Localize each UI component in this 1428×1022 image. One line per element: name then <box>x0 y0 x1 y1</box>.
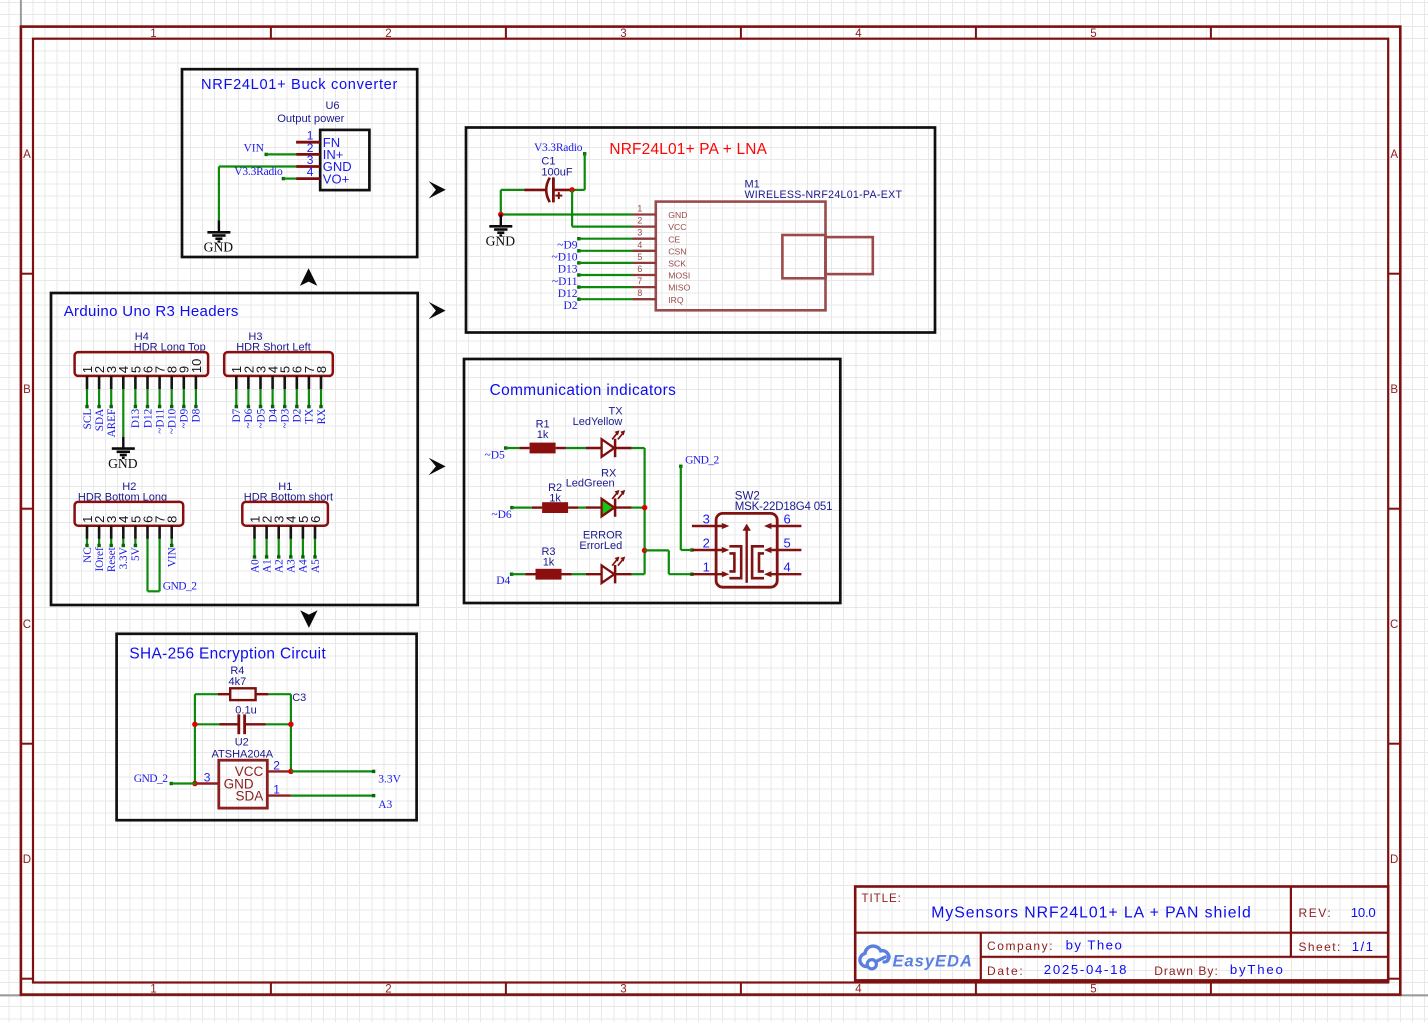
svg-text:D: D <box>1390 854 1398 866</box>
svg-text:TX: TX <box>304 409 316 424</box>
H2 pin 5 <box>128 516 143 539</box>
H2 pin 1 <box>80 516 95 539</box>
svg-text:U6: U6 <box>325 100 339 112</box>
resistor R1 <box>519 418 566 453</box>
capacitor C3 <box>195 714 291 734</box>
H3 pin 8 <box>314 366 329 389</box>
wire GND_2 to SW2 pin 2 <box>679 465 692 550</box>
svg-text:Reset: Reset <box>106 546 118 572</box>
svg-text:A0: A0 <box>249 559 261 573</box>
junction C3 left <box>192 722 198 728</box>
svg-text:GND_2: GND_2 <box>134 773 168 785</box>
ground GND (buck) <box>204 221 234 255</box>
svg-text:D2: D2 <box>292 409 304 423</box>
svg-text:C3: C3 <box>292 692 306 704</box>
M1 pin 3 (CE) <box>633 228 681 245</box>
svg-text:GND_2: GND_2 <box>685 454 719 466</box>
svg-text:5: 5 <box>1090 984 1096 996</box>
IC U2 labels <box>212 737 274 761</box>
H2 pin 4 <box>116 516 131 539</box>
svg-text:2025-04-18: 2025-04-18 <box>1044 962 1128 977</box>
svg-text:2: 2 <box>637 216 642 226</box>
svg-text:D13: D13 <box>558 264 578 276</box>
svg-text:MySensors NRF24L01+ LA + PAN s: MySensors NRF24L01+ LA + PAN shield <box>931 905 1251 922</box>
svg-text:~D9: ~D9 <box>557 240 578 252</box>
U2 pin 3 (GND) <box>196 771 254 792</box>
wire C1 left to ground junction <box>501 190 524 215</box>
svg-text:D12: D12 <box>558 288 578 300</box>
svg-text:1/1: 1/1 <box>1352 939 1375 954</box>
svg-text:D4: D4 <box>496 575 510 587</box>
svg-text:8: 8 <box>637 288 642 298</box>
junction U2 GND <box>192 781 198 787</box>
wire R4 left <box>195 693 218 695</box>
IC U2 ATSHA204A body <box>219 760 267 808</box>
svg-text:U2: U2 <box>235 737 249 749</box>
H4 pin 5 <box>128 366 143 389</box>
svg-text:4: 4 <box>784 560 791 575</box>
svg-text:TITLE:: TITLE: <box>862 893 902 905</box>
section box: Communication indicators <box>464 359 840 603</box>
svg-text:SCK: SCK <box>668 259 686 269</box>
svg-text:VIN: VIN <box>167 547 179 567</box>
svg-text:~D11: ~D11 <box>552 276 578 288</box>
svg-text:6: 6 <box>637 264 642 274</box>
svg-text:NC: NC <box>82 547 94 563</box>
svg-text:MISO: MISO <box>668 283 690 293</box>
svg-text:1k: 1k <box>543 556 555 568</box>
svg-text:A3: A3 <box>378 799 392 811</box>
svg-text:GND: GND <box>486 234 516 249</box>
wire LED RX to bus <box>632 507 645 509</box>
wire SDA to A3 <box>291 794 374 796</box>
flow arrow right (headers to indicators) <box>429 458 446 475</box>
svg-text:Date:: Date: <box>987 964 1024 978</box>
svg-text:SCL: SCL <box>82 409 94 430</box>
wire H1 pin 6 (A5) <box>313 539 316 559</box>
svg-text:VO+: VO+ <box>323 171 349 186</box>
wire LED TX to bus <box>632 447 645 449</box>
wire net D12 to M1 pin 7 <box>577 285 632 288</box>
svg-text:D12: D12 <box>142 409 154 428</box>
svg-text:Drawn By:: Drawn By: <box>1154 964 1219 978</box>
wire V3.3Radio to U6 pin 4 <box>282 177 296 180</box>
wire H3 pin 1 (D7) <box>235 389 238 408</box>
svg-text:~D11: ~D11 <box>154 409 166 434</box>
svg-text:A: A <box>1390 149 1398 161</box>
svg-text:LedGreen: LedGreen <box>566 478 615 490</box>
svg-text:5: 5 <box>637 252 642 262</box>
H1 pin 5 <box>296 516 311 539</box>
svg-text:Company:: Company: <box>987 939 1054 953</box>
H1 pin 1 <box>247 516 262 539</box>
module M1 WIRELESS-NRF24L01-PA-EXT body <box>656 202 826 311</box>
flow arrow right (buck to PA) <box>429 181 446 198</box>
wire end nubs at SW2 pins <box>690 548 693 576</box>
U6 pin 2 (IN+) <box>296 141 343 162</box>
U2 pin 1 (SDA) <box>236 783 291 804</box>
svg-text:WIRELESS-NRF24L01-PA-EXT: WIRELESS-NRF24L01-PA-EXT <box>745 189 903 201</box>
header H1 (HDR Bottom short) <box>242 481 333 539</box>
svg-text:10.0: 10.0 <box>1351 905 1376 920</box>
svg-text:2: 2 <box>273 758 280 772</box>
svg-text:GND: GND <box>108 456 138 471</box>
junction C3 right <box>288 722 294 728</box>
wire H4 pin 5 (D13) <box>134 389 137 408</box>
junction at ground node <box>498 212 504 218</box>
wire H3 pin 8 (RX) <box>319 389 322 408</box>
svg-text:C: C <box>23 619 31 631</box>
svg-text:IRQ: IRQ <box>668 295 684 305</box>
svg-text:EasyEDA: EasyEDA <box>893 952 973 970</box>
svg-text:4: 4 <box>855 28 862 40</box>
wire H1 pin 1 (A0) <box>253 539 256 559</box>
wire H2 pins 6-7 to GND_2 <box>148 539 160 591</box>
svg-text:6: 6 <box>308 516 323 523</box>
switch SW2 labels <box>735 490 833 513</box>
H1 pin 4 <box>284 516 299 539</box>
svg-text:by Theo: by Theo <box>1066 937 1124 952</box>
svg-text:2: 2 <box>385 28 391 40</box>
svg-text:1: 1 <box>150 28 156 40</box>
svg-text:5: 5 <box>1090 28 1096 40</box>
header H3 (HDR Short Left) <box>224 331 333 389</box>
svg-text:Communication indicators: Communication indicators <box>490 382 677 399</box>
svg-text:A1: A1 <box>261 559 273 573</box>
svg-text:7: 7 <box>637 276 642 286</box>
svg-text:D8: D8 <box>191 408 203 422</box>
H3 pin 1 <box>229 366 244 389</box>
H2 pin 8 <box>165 516 180 539</box>
wire bus to SW2 pin 1 <box>645 550 692 574</box>
junction at C1 right <box>569 187 575 193</box>
section box: NRF24L01+ PA + LNA <box>466 128 935 333</box>
flow arrow right (headers to PA) <box>429 302 446 319</box>
svg-text:4: 4 <box>637 240 642 250</box>
wire R3 to LED ERROR <box>572 573 586 575</box>
svg-text:1k: 1k <box>537 429 549 441</box>
svg-text:6: 6 <box>784 511 791 526</box>
svg-text:1: 1 <box>273 783 280 797</box>
svg-text:V3.3Radio: V3.3Radio <box>234 166 283 178</box>
H4 pin 6 <box>140 366 155 389</box>
M1 pin 4 (CSN) <box>633 240 687 257</box>
M1 antenna block inner <box>782 235 825 278</box>
wire LED ERROR to bus <box>632 573 645 575</box>
wire U6 pin 3 to ground <box>219 167 296 221</box>
H4 pin 9 <box>177 366 192 389</box>
svg-text:3: 3 <box>620 984 626 996</box>
wire R3 input <box>510 573 525 576</box>
svg-text:~D6: ~D6 <box>491 509 512 521</box>
H1 pin 2 <box>260 516 275 539</box>
svg-text:SDA: SDA <box>236 788 264 803</box>
svg-text:2: 2 <box>385 984 391 996</box>
svg-text:100uF: 100uF <box>541 167 572 179</box>
wire H3 pin 4 (D4) <box>271 389 274 408</box>
svg-text:8: 8 <box>165 516 180 523</box>
svg-text:NRF24L01+ PA + LNA: NRF24L01+ PA + LNA <box>609 141 767 158</box>
svg-text:5V: 5V <box>130 547 142 561</box>
H3 pin 5 <box>278 366 293 389</box>
svg-text:VIN: VIN <box>243 142 264 154</box>
svg-text:D7: D7 <box>231 408 243 422</box>
wire H2 pin 5 (5V) <box>134 539 137 547</box>
wire H4 pin 3 (AREF) <box>110 389 113 408</box>
H3 pin 3 <box>253 366 268 389</box>
H1 pin 6 <box>308 516 323 539</box>
svg-text:SDA: SDA <box>94 409 106 431</box>
flow arrow down (headers to SHA) <box>300 610 317 628</box>
H3 pin 6 <box>290 366 305 389</box>
svg-text:~D3: ~D3 <box>280 408 292 428</box>
SW2 pin 6 <box>764 511 801 529</box>
svg-text:4k7: 4k7 <box>229 676 247 688</box>
H2 pin 6 <box>140 516 155 539</box>
wire H4 pin 2 (SDA) <box>97 389 100 408</box>
frame column numbers <box>150 28 1096 995</box>
svg-text:NRF24L01+ Buck converter: NRF24L01+ Buck converter <box>201 77 398 93</box>
SW2 pin 4 <box>764 560 801 578</box>
H1 pin 3 <box>272 516 287 539</box>
U6 pin 3 (GND) <box>296 153 352 174</box>
svg-text:B: B <box>23 384 31 396</box>
LED TX LedYellow <box>573 406 632 458</box>
SW2 contacts and actuator <box>729 524 764 583</box>
frame column ticks <box>271 27 1211 995</box>
svg-text:10: 10 <box>189 359 204 373</box>
wire R1 to LED TX <box>566 447 586 449</box>
svg-text:~D9: ~D9 <box>179 408 191 428</box>
switch SW2 MSK-22D18G4 051 body <box>716 513 777 587</box>
M1 antenna block outer <box>826 237 873 274</box>
svg-text:2: 2 <box>703 535 710 550</box>
frame row letters <box>23 149 1399 866</box>
svg-text:A: A <box>23 149 31 161</box>
H4 pin 3 <box>104 366 119 389</box>
junction bus at RX row <box>642 505 648 511</box>
junction bus at switch branch <box>642 548 648 554</box>
capacitor C3 labels <box>235 692 306 717</box>
svg-text:ATSHA204A: ATSHA204A <box>212 749 274 761</box>
resistor R4 labels <box>229 665 247 688</box>
wire H2 pin 2 (IOref) <box>97 539 100 547</box>
ground GND (PA) <box>486 215 516 249</box>
wire H1 pin 4 (A3) <box>289 539 292 559</box>
wire H3 pin 2 (~D6) <box>247 389 250 408</box>
wire net D2 to M1 pin 8 <box>577 298 632 301</box>
svg-text:~D10: ~D10 <box>551 252 577 264</box>
svg-text:A3: A3 <box>286 559 298 573</box>
SW2 pin 3 <box>692 511 729 529</box>
H4 pin 1 <box>80 366 95 389</box>
wire LED cathode bus (vertical) <box>643 448 645 574</box>
M1 pin 1 (GND) <box>633 204 688 221</box>
svg-text:ErrorLed: ErrorLed <box>579 540 622 552</box>
section box: Arduino Uno R3 Headers <box>51 293 418 605</box>
wire VCC to 3.3V <box>291 770 374 772</box>
EasyEDA logo <box>860 946 973 970</box>
IC U6 body <box>320 130 369 190</box>
U6 pin 1 (FN) <box>296 129 340 150</box>
svg-text:1: 1 <box>637 204 642 214</box>
wire H4 pin 4 to ground <box>122 389 124 437</box>
H4 pin 4 <box>116 366 131 389</box>
wire H3 pin 3 (~D5) <box>259 389 262 408</box>
wire H2 pin 8 (VIN) <box>170 539 173 547</box>
wire H4 pin 10 (D8) <box>194 389 197 408</box>
svg-text:D4: D4 <box>267 408 279 422</box>
wire H1 pin 5 (A4) <box>301 539 304 559</box>
wire H1 pin 3 (A2) <box>277 539 280 559</box>
wire ground junction to M1 pin 1 <box>501 213 633 215</box>
capacitor C1 (polarized) <box>524 177 572 202</box>
wire H2 pin 4 (3.3V) <box>122 539 125 547</box>
H4 pin 10 <box>189 359 204 389</box>
svg-text:CE: CE <box>668 234 680 244</box>
header H2 (HDR Bottom Long) <box>75 481 184 539</box>
SW2 pin 1 <box>692 560 729 578</box>
wire net ~D10 to M1 pin 4 <box>577 249 632 252</box>
svg-text:C: C <box>1390 619 1398 631</box>
svg-text:GND: GND <box>204 240 234 255</box>
resistor R2 <box>532 482 579 513</box>
svg-text:C1: C1 <box>541 155 555 167</box>
wire V3.3Radio down to C1/VCC <box>572 152 586 190</box>
ground GND (headers) <box>108 437 138 471</box>
wire H3 pin 6 (D2) <box>295 389 298 408</box>
svg-text:5: 5 <box>784 535 791 550</box>
junction U2 VCC <box>288 769 294 775</box>
wire H2 pin 3 (Reset) <box>110 539 113 547</box>
svg-text:1k: 1k <box>549 492 561 504</box>
M1 pin 6 (MOSI) <box>633 264 691 281</box>
wire net ~D11 to M1 pin 6 <box>577 273 632 276</box>
svg-text:Output power: Output power <box>277 113 344 125</box>
svg-text:~D5: ~D5 <box>255 408 267 428</box>
svg-text:1: 1 <box>703 560 710 575</box>
svg-text:3.3V: 3.3V <box>378 774 401 786</box>
svg-text:3: 3 <box>637 228 642 238</box>
H3 pin 4 <box>266 366 281 389</box>
H2 pin 3 <box>104 516 119 539</box>
H2 pin 7 <box>153 516 168 539</box>
svg-text:3: 3 <box>620 28 626 40</box>
svg-text:CSN: CSN <box>668 246 686 256</box>
section box: SHA-256 Encryption Circuit <box>117 634 417 820</box>
wire R1 input <box>504 446 519 449</box>
svg-text:Arduino Uno R3 Headers: Arduino Uno R3 Headers <box>64 303 239 320</box>
svg-text:byTheo: byTheo <box>1230 962 1285 977</box>
wire H4 pin 7 (~D11) <box>158 389 161 408</box>
svg-text:A5: A5 <box>310 559 322 573</box>
svg-text:3: 3 <box>204 771 211 785</box>
svg-text:8: 8 <box>314 366 329 373</box>
wire R2 to LED RX <box>578 507 586 509</box>
svg-text:RX: RX <box>316 409 328 425</box>
svg-text:~D10: ~D10 <box>167 408 179 434</box>
svg-text:A4: A4 <box>298 559 310 573</box>
svg-text:D: D <box>23 854 31 866</box>
H4 pin 2 <box>92 366 107 389</box>
module M1 labels <box>745 179 903 202</box>
svg-text:A2: A2 <box>274 559 286 573</box>
op-amp U6 labels <box>277 100 344 125</box>
section box: NRF24L01+ Buck converter <box>182 69 417 257</box>
svg-text:~D6: ~D6 <box>243 408 255 428</box>
svg-text:D13: D13 <box>130 408 142 428</box>
wire H4 pin 9 (~D9) <box>182 389 185 408</box>
svg-text:~D5: ~D5 <box>485 449 506 461</box>
wire right rail <box>290 694 292 771</box>
M1 pin 7 (MISO) <box>633 276 691 293</box>
svg-text:3.3V: 3.3V <box>118 547 130 569</box>
capacitor C1 labels <box>541 155 572 178</box>
M1 pin 5 (SCK) <box>633 252 687 269</box>
U2 pin 2 (VCC) <box>235 758 291 779</box>
LED RX LedGreen <box>566 467 632 517</box>
wire R4 right <box>268 693 291 695</box>
M1 pin 2 (VCC) <box>633 216 687 233</box>
resistor R4 <box>218 688 269 700</box>
H3 pin 2 <box>241 366 256 389</box>
title block frame <box>855 887 1388 981</box>
svg-text:REV:: REV: <box>1299 906 1333 920</box>
svg-text:4: 4 <box>307 165 314 179</box>
wire H2 pin 1 (NC) <box>85 539 88 547</box>
wire VIN to U6 pin 2 <box>265 153 297 156</box>
wire H4 pin 8 (~D10) <box>170 389 173 408</box>
flow arrow up (headers to buck) <box>300 268 317 286</box>
svg-text:4: 4 <box>855 984 862 996</box>
svg-text:LedYellow: LedYellow <box>573 416 623 428</box>
wire H1 pin 2 (A1) <box>265 539 268 559</box>
wire H4 pin 1 (SCL) <box>85 389 88 408</box>
svg-text:GND_2: GND_2 <box>163 580 197 592</box>
wire GND_2 to U2 pin 3 <box>170 782 196 785</box>
wire net D13 to M1 pin 5 <box>577 261 632 264</box>
M1 pin 8 (IRQ) <box>633 288 684 305</box>
svg-text:1: 1 <box>150 984 156 996</box>
wire C1 right down to M1 pin 2 <box>572 190 632 227</box>
wire R2 input <box>510 506 532 509</box>
SW2 pin 2 <box>692 535 729 553</box>
H4 pin 7 <box>153 366 168 389</box>
wire net ~D9 to M1 pin 3 <box>577 237 632 240</box>
frame row ticks <box>21 274 1400 979</box>
svg-text:AREF: AREF <box>106 409 118 438</box>
svg-text:GND: GND <box>668 210 687 220</box>
svg-text:V3.3Radio: V3.3Radio <box>534 142 583 154</box>
svg-text:VCC: VCC <box>668 222 686 232</box>
H3 pin 7 <box>302 366 317 389</box>
wire H3 pin 7 (TX) <box>307 389 310 408</box>
resistor R3 <box>525 546 572 579</box>
H4 pin 8 <box>165 366 180 389</box>
svg-text:Sheet:: Sheet: <box>1299 940 1342 954</box>
wire left rail <box>194 694 196 783</box>
H2 pin 2 <box>92 516 107 539</box>
U6 pin 4 (VO+) <box>296 165 349 186</box>
svg-text:3: 3 <box>703 511 710 526</box>
svg-text:IOref: IOref <box>94 547 106 571</box>
svg-text:MOSI: MOSI <box>668 271 690 281</box>
header H4 (HDR Long Top) <box>75 331 209 389</box>
svg-text:B: B <box>1390 384 1398 396</box>
LED ERROR ErrorLed <box>579 529 631 583</box>
wire H4 pin 6 (D12) <box>146 389 149 408</box>
wire H3 pin 5 (~D3) <box>283 389 286 408</box>
